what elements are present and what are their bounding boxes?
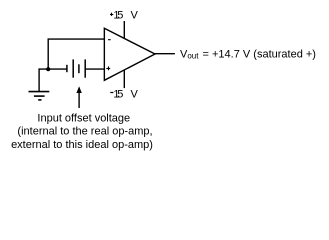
svg-text:15 V: 15 V xyxy=(113,89,138,101)
svg-text:Vout = +14.7 V (saturated +): Vout = +14.7 V (saturated +) xyxy=(180,48,316,60)
svg-text:external to this ideal op-amp): external to this ideal op-amp) xyxy=(11,139,153,151)
svg-text:Input offset voltage: Input offset voltage xyxy=(37,112,130,124)
svg-text:15 V: 15 V xyxy=(113,9,138,21)
svg-text:(internal to the real op-amp,: (internal to the real op-amp, xyxy=(17,126,152,138)
